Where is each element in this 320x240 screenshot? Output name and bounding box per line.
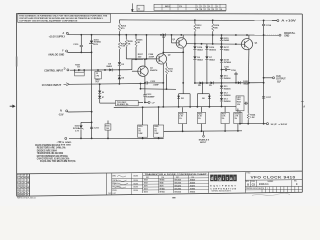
- parts list footnote: [17, 196, 36, 199]
- diodes D6 D7 column: [98, 83, 104, 103]
- wire lower link: [140, 84, 176, 90]
- svg-text:10/2/69: 10/2/69: [133, 190, 138, 192]
- proprietary notice box: [18, 14, 111, 23]
- svg-text:IN3606: IN3606: [209, 49, 217, 51]
- svg-text:1/4W: 1/4W: [138, 132, 142, 135]
- transistor Q3: [171, 34, 187, 94]
- svg-text:7.5K: 7.5K: [121, 46, 126, 48]
- terminal B digital gnd: [265, 32, 296, 38]
- terminal CLK output: [264, 76, 286, 83]
- resistor box R225b: [234, 109, 242, 132]
- resistor R205: [125, 35, 133, 59]
- terminal E 10 usec input: [42, 83, 69, 87]
- svg-text:IN3606: IN3606: [224, 95, 232, 97]
- transistor Q4: [241, 35, 258, 84]
- svg-text:CORPORATION: CORPORATION: [210, 187, 237, 190]
- svg-text:IN462: IN462: [224, 39, 230, 42]
- wire bottom rail left: [69, 137, 164, 139]
- svg-text:.01MF: .01MF: [148, 57, 155, 59]
- svg-text:-15V: -15V: [58, 114, 63, 117]
- svg-text:CERM: CERM: [95, 80, 100, 82]
- svg-text:D662: D662: [144, 183, 148, 185]
- svg-text:4.7K: 4.7K: [168, 70, 173, 73]
- terminal U,F +10V: [267, 123, 289, 126]
- svg-text:IN748A: IN748A: [224, 61, 232, 64]
- transistor Q2: [156, 35, 171, 108]
- resistor box R219b: [179, 107, 187, 132]
- svg-text:DIODES ARE D664: DIODES ARE D664: [37, 149, 58, 152]
- resistor R204 and diode column: [118, 20, 127, 71]
- svg-text:3: 3: [205, 6, 206, 8]
- svg-text:DEC3009: DEC3009: [175, 183, 182, 185]
- signature column: [112, 173, 143, 194]
- diode D215: [220, 35, 230, 44]
- capacitor C213: [143, 94, 155, 102]
- capacitor C217: [262, 97, 272, 99]
- svg-text:DIGITAL: DIGITAL: [284, 32, 296, 35]
- wire 10usec input: [69, 83, 145, 85]
- svg-text:10/2/69: 10/2/69: [133, 183, 138, 185]
- wire Q2 collector to Q3 emitter: [162, 51, 184, 53]
- resistor R214: [212, 20, 220, 44]
- svg-text:IN3606: IN3606: [160, 180, 165, 182]
- svg-text:B,P: B,P: [277, 81, 281, 83]
- svg-text:E: E: [263, 188, 264, 190]
- svg-text:2N3009: 2N3009: [190, 183, 195, 185]
- parts list table: [17, 174, 30, 196]
- terminal D control input: [44, 68, 69, 72]
- diode network A2: [197, 82, 211, 108]
- diode network A1: [177, 94, 191, 108]
- wire Q3 Q4 base row: [187, 43, 242, 45]
- wire control input: [70, 69, 132, 72]
- svg-text:D7: D7: [102, 97, 104, 99]
- diode D216 chain: [205, 44, 216, 84]
- svg-text:i: i: [215, 176, 216, 181]
- svg-text:RESISTORS ARE 1/4W; 5%: RESISTORS ARE 1/4W; 5%: [37, 147, 67, 150]
- left border blotch: [16, 57, 18, 67]
- svg-text:3.9V: 3.9V: [94, 44, 99, 46]
- diode chain D10-D13: [220, 75, 231, 107]
- svg-text:C217: C217: [266, 97, 272, 99]
- delay line box T201: [100, 100, 143, 106]
- wire mid horizontal: [114, 106, 236, 107]
- svg-text:D670: D670: [144, 186, 148, 188]
- svg-text:POT: POT: [96, 82, 99, 84]
- wire vertical x91: [91, 52, 93, 111]
- svg-text:B: B: [247, 183, 249, 186]
- svg-text:1.5K: 1.5K: [250, 117, 255, 119]
- terminal A +10.2V supply: [49, 32, 69, 39]
- svg-text:d: d: [211, 176, 214, 181]
- wire analog gnd: [68, 51, 92, 53]
- zener diode D202: [73, 122, 93, 140]
- svg-text:IN462: IN462: [224, 48, 230, 51]
- diode D214 chain: [193, 44, 203, 84]
- svg-text:GND: GND: [284, 36, 289, 38]
- svg-text:CLK: CLK: [276, 76, 281, 78]
- wire +10V top rail: [119, 19, 277, 22]
- revision table: [132, 4, 227, 11]
- resistor box R221b: [197, 107, 205, 132]
- capacitor C216: [231, 70, 238, 84]
- svg-text:1K: 1K: [77, 67, 80, 69]
- svg-text:UNLESS OTHERWISE INDICATED:: UNLESS OTHERWISE INDICATED:: [35, 144, 61, 147]
- svg-text:INPUT: INPUT: [200, 142, 207, 144]
- title block title cell: [245, 173, 302, 193]
- resistor R201 pot: [74, 64, 85, 76]
- svg-text:1/4W: 1/4W: [154, 132, 158, 135]
- label +10V near notes: [57, 141, 63, 143]
- svg-text:R1: R1: [96, 73, 98, 75]
- resistor box R210: [105, 121, 111, 140]
- pencil scribble: [252, 193, 290, 195]
- svg-text:2N4274: 2N4274: [150, 69, 158, 72]
- svg-text:F: F: [217, 9, 218, 11]
- wire bottom rail right: [164, 130, 242, 133]
- svg-text:IN3606: IN3606: [224, 101, 232, 103]
- svg-text:VFO CLOCK 9410: VFO CLOCK 9410: [251, 175, 296, 179]
- resistor box R223b: [221, 107, 229, 132]
- diode chain D217 D218: [220, 44, 231, 75]
- capacitor C215: [221, 67, 231, 72]
- resistor R211: [165, 63, 173, 91]
- capacitor C218: [244, 102, 248, 105]
- label C208: [148, 54, 155, 58]
- capacitor C211: [90, 127, 100, 139]
- terminal A +10V right: [272, 19, 297, 22]
- svg-text:R1,R2 ARE 7500 MIL/TERM POT,5%: R1,R2 ARE 7500 MIL/TERM POT,5%: [40, 160, 76, 163]
- svg-text:IN462: IN462: [209, 58, 215, 61]
- wire main rail: [68, 34, 279, 36]
- resistor R206: [135, 35, 143, 60]
- diodes D8 D9 on output row: [198, 81, 213, 87]
- svg-text:C212: C212: [150, 81, 156, 83]
- svg-text:100: 100: [106, 128, 109, 130]
- svg-text:EQUIPMENT: EQUIPMENT: [210, 185, 237, 187]
- wire -15V feed: [68, 111, 93, 139]
- svg-text:a: a: [230, 176, 233, 181]
- svg-text:ANALOG GND: ANALOG GND: [48, 54, 64, 57]
- svg-text:10 USEC INPUT: 10 USEC INPUT: [42, 84, 62, 87]
- resistor box R219: [138, 106, 148, 139]
- svg-text:PROD.: PROD.: [112, 190, 117, 192]
- terminal N -15V: [58, 110, 67, 117]
- transistor diode conversion chart: [143, 173, 209, 194]
- terminal C ground: [59, 137, 72, 146]
- svg-text:DRN.: DRN.: [112, 176, 116, 178]
- svg-text:10/2/69: 10/2/69: [133, 187, 138, 189]
- svg-text:A +10V: A +10V: [281, 19, 296, 22]
- svg-text:DEC3639: DEC3639: [175, 180, 182, 182]
- zone marker A: [301, 102, 306, 109]
- label R207: [138, 54, 144, 58]
- zener diode D201: [89, 35, 101, 53]
- wire collector row Q1: [132, 59, 143, 69]
- diode D3 on rail: [162, 33, 166, 39]
- svg-text:IN270: IN270: [160, 186, 164, 188]
- terminal L.P: [144, 101, 155, 104]
- DEC digital logo block: [209, 172, 246, 193]
- svg-text:C210: C210: [73, 44, 79, 46]
- svg-text:IN3605: IN3605: [224, 88, 232, 90]
- svg-text:10%: 10%: [237, 104, 241, 106]
- svg-text:COPYRIGHT 1969 BY DIGITAL EQUI: COPYRIGHT 1969 BY DIGITAL EQUIPMENT CORP…: [19, 19, 78, 22]
- svg-text:BOTTOM COMPONENTS ARE OPTIONAL: BOTTOM COMPONENTS ARE OPTIONAL: [37, 155, 69, 158]
- inductor box L201: [236, 96, 244, 125]
- svg-text:C214: C214: [266, 24, 272, 27]
- svg-text:CS: CS: [252, 183, 256, 186]
- resistor R224: [247, 83, 256, 125]
- svg-text:10/2/69: 10/2/69: [133, 180, 138, 182]
- diode D220: [238, 81, 250, 86]
- diode D4 on control wire: [104, 63, 113, 72]
- svg-text:6: 6: [217, 6, 218, 8]
- transistor Q1: [132, 58, 158, 94]
- svg-text:10/2/69: 10/2/69: [133, 176, 138, 178]
- wire Q2 base: [126, 58, 156, 60]
- parts list strip: [30, 173, 117, 196]
- svg-text:50 NSEC DL: 50 NSEC DL: [117, 104, 129, 106]
- svg-text:C211: C211: [94, 128, 100, 130]
- svg-text:2: 2: [201, 6, 202, 8]
- capacitor C210: [73, 35, 83, 53]
- resistor R212: [194, 20, 202, 44]
- wire output row: [195, 82, 264, 84]
- svg-text:2N3639: 2N3639: [190, 180, 195, 182]
- svg-text:l: l: [234, 176, 235, 181]
- notes text block: [35, 144, 76, 163]
- capacitor C212: [144, 81, 164, 86]
- junction dots top rail: [194, 19, 265, 21]
- svg-text:U,F +10V: U,F +10V: [271, 124, 289, 126]
- svg-text:CONTROL INPUT: CONTROL INPUT: [44, 70, 64, 73]
- revision arrow: [131, 3, 134, 12]
- svg-text:TITLE: TITLE: [246, 173, 250, 175]
- svg-text:g: g: [218, 176, 221, 181]
- svg-text:180MMF: 180MMF: [146, 96, 155, 98]
- junction dots main rail: [80, 34, 264, 36]
- svg-text:.01MF: .01MF: [153, 84, 160, 86]
- title block top line: [17, 171, 303, 174]
- terminal S enable input: [199, 131, 210, 144]
- svg-text:CAPACITORS ARE .01 MFD,100V,20: CAPACITORS ARE .01 MFD,100V,20%: [37, 158, 70, 161]
- wire vertical x146: [146, 35, 148, 59]
- resistor box R220: [154, 106, 164, 139]
- svg-text:IN3606: IN3606: [224, 78, 232, 80]
- svg-text:IN462: IN462: [106, 65, 112, 68]
- svg-text:+10V: +10V: [57, 141, 63, 143]
- svg-text:+10.2V SUPPLY: +10.2V SUPPLY: [49, 36, 66, 39]
- svg-text:D21: D21: [181, 98, 184, 100]
- svg-text:9410-0-1: 9410-0-1: [259, 183, 269, 186]
- svg-text:D6: D6: [102, 92, 104, 94]
- terminal F analog gnd: [48, 50, 68, 57]
- svg-text:IN462: IN462: [197, 48, 203, 51]
- svg-text:560: 560: [202, 98, 205, 100]
- svg-text:STB GND: STB GND: [61, 145, 71, 147]
- svg-text:1: 1: [197, 6, 198, 8]
- wire long vertical right: [263, 35, 265, 125]
- drawing border frame: [17, 13, 303, 196]
- potentiometer R1 cermet: [95, 69, 101, 83]
- diode D5 clamp: [118, 70, 125, 85]
- svg-text:IN462: IN462: [197, 58, 203, 61]
- bottom margin tick: [172, 197, 175, 198]
- svg-text:i: i: [223, 176, 224, 181]
- svg-text:D672: D672: [144, 188, 148, 190]
- svg-text:OUTPUT: OUTPUT: [276, 79, 286, 81]
- svg-text:IN645: IN645: [243, 82, 249, 85]
- wire bottom right +10V: [240, 123, 267, 125]
- svg-text:TRANSISTORS ARE DEC3639: TRANSISTORS ARE DEC3639: [37, 152, 64, 155]
- left margin arrow: [10, 105, 16, 108]
- capacitor C214: [262, 21, 272, 36]
